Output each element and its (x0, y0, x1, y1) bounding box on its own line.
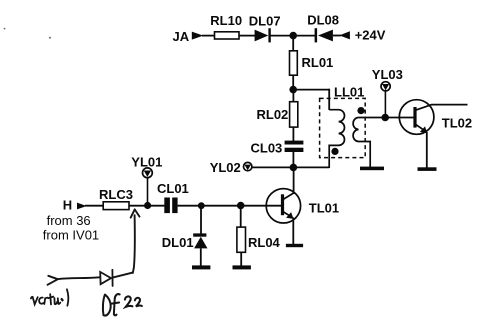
hand-drawn diode DF22 (100, 270, 112, 286)
svg-text:RL10: RL10 (210, 13, 242, 28)
junction node YL03 (381, 114, 389, 122)
svg-text:CL01: CL01 (157, 181, 189, 196)
transistor TL02 (399, 100, 434, 135)
svg-text:from IV01: from IV01 (43, 227, 99, 242)
capacitor CL01 (164, 198, 177, 214)
label RL04 (248, 235, 281, 250)
svg-text:RL04: RL04 (248, 235, 281, 250)
svg-text:DL01: DL01 (162, 235, 194, 250)
hand-drawn wire to diode (58, 277, 100, 279)
wire TL01 emitter (292, 218, 294, 246)
transformer secondary winding (353, 118, 370, 168)
svg-text:YL03: YL03 (372, 67, 403, 82)
resistor RL04 (237, 227, 246, 252)
wire node E to DL01 (200, 206, 202, 234)
junction node C (290, 164, 298, 172)
wire JA arrow to RL10 (202, 35, 215, 37)
resistor RLC3 (103, 202, 129, 210)
diode DL07 (255, 28, 271, 42)
svg-text:YL01: YL01 (131, 154, 162, 169)
label YL01 (131, 154, 162, 169)
wire DL08 to +24V arrow (333, 35, 341, 37)
svg-text:TL01: TL01 (309, 200, 339, 215)
primary phase dot (331, 148, 338, 155)
label RLC3 (99, 187, 133, 202)
svg-text:TL02: TL02 (442, 115, 472, 130)
wire to YL01 test point (147, 178, 149, 206)
svg-text:from 36: from 36 (47, 213, 91, 228)
wire node B to transformer primary top (293, 89, 329, 110)
label YL03 (372, 67, 403, 82)
ground TL01 (286, 244, 303, 247)
wire node F to RL04 (240, 206, 242, 228)
wire TL02 collector out (431, 104, 467, 106)
wire CL03 to node C (292, 152, 294, 168)
diode DL01 (193, 233, 207, 248)
junction node E (DL01) (198, 202, 205, 209)
svg-text:YL02: YL02 (210, 160, 241, 175)
transformer primary winding (329, 110, 344, 168)
wire to YL03 test point (384, 91, 386, 118)
svg-text:DL07: DL07 (249, 13, 281, 28)
wire CL01 to TL01 base (178, 205, 281, 207)
wire RL02 to CL03 (292, 127, 294, 141)
label RL10 (210, 13, 242, 28)
label TL02 (442, 115, 472, 130)
diode DL08 (315, 28, 333, 42)
test point YL01 (143, 168, 153, 178)
label TL01 (309, 200, 339, 215)
resistor RL01 (290, 51, 298, 75)
JA input arrow (192, 32, 204, 40)
svg-text:DL08: DL08 (307, 13, 339, 28)
wire YL02 line (252, 166, 330, 168)
handwritten word vertical (31, 289, 68, 305)
resistor RL10 (215, 32, 240, 39)
resistor RL02 (290, 90, 298, 128)
svg-text:RLC3: RLC3 (99, 187, 133, 202)
junction node B (289, 86, 297, 94)
junction node D (144, 202, 151, 209)
test point YL02 (244, 162, 252, 170)
svg-text:RL02: RL02 (257, 107, 289, 122)
+24V input arrow (339, 31, 350, 39)
label RL01 (302, 55, 334, 70)
label LL01 (334, 85, 364, 100)
label DL08 (307, 13, 339, 28)
ground secondary (360, 167, 384, 171)
secondary phase dot (357, 107, 364, 114)
node JA label (173, 29, 190, 44)
H input arrow (77, 203, 87, 210)
label from IV01 (43, 227, 99, 242)
hand-drawn annotation arrow hook (48, 276, 58, 285)
transistor TL01 (266, 189, 300, 223)
speck (4, 28, 51, 39)
handwritten label DF 22 (103, 294, 142, 315)
wire RLC3 to CL01 (129, 205, 165, 207)
wire DL01 to ground (200, 248, 202, 266)
wire DL07 to DL08 (271, 35, 316, 37)
wire RL04 to ground (240, 252, 242, 266)
wire top node to RL01 (292, 36, 294, 52)
hand-drawn vertical wire with arrow (131, 209, 140, 273)
label RL02 (257, 107, 289, 122)
label CL01 (157, 181, 189, 196)
junction node F (RL04) (237, 202, 245, 210)
ground TL02 (418, 167, 437, 171)
wire TL02 emitter down (426, 132, 428, 168)
hand-drawn wire diode to vertical (113, 273, 133, 278)
label DL07 (249, 13, 281, 28)
svg-text:JA: JA (173, 29, 190, 44)
wire RL01 to node B (292, 75, 294, 90)
svg-text:RL01: RL01 (302, 55, 334, 70)
wire TL01 collector (293, 167, 295, 194)
transformer LL01 dashed box (320, 98, 366, 157)
svg-text:H: H (63, 198, 72, 213)
svg-text:CL03: CL03 (251, 140, 283, 155)
ground DL01 (192, 265, 210, 269)
label from 36 (47, 213, 91, 228)
svg-text:+24V: +24V (355, 27, 386, 42)
junction node top (+24V rail) (289, 32, 297, 40)
test point YL03 (381, 82, 390, 91)
svg-text:LL01: LL01 (334, 85, 364, 100)
capacitor CL03 (285, 141, 304, 152)
label YL02 (210, 160, 241, 175)
wire RL10 to DL07 (239, 35, 255, 37)
label CL03 (251, 140, 283, 155)
ground RL04 (233, 265, 251, 269)
label +24V (355, 27, 386, 42)
label DL01 (162, 235, 194, 250)
wire secondary top to TL02 base (359, 117, 414, 119)
wire H arrow to RLC3 (85, 205, 104, 207)
node H label (63, 198, 72, 213)
